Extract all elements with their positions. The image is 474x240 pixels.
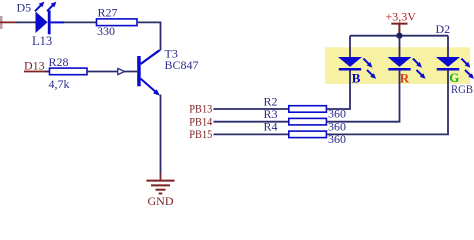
- wire anode drop to RGB LED chip 2: [399, 36, 401, 58]
- svg-text:R27: R27: [98, 5, 118, 19]
- wire anode drop to RGB LED chip 1: [349, 36, 351, 58]
- highlight box around RGB LED group: [325, 47, 470, 84]
- LED D2 chip G (green chip): [436, 57, 474, 79]
- svg-text:PB14: PB14: [189, 116, 212, 128]
- svg-text:BC847: BC847: [165, 58, 199, 72]
- svg-text:D5: D5: [17, 0, 32, 14]
- wire R4 to LED chip: [326, 133, 449, 135]
- clipped terminal at left edge: [0, 16, 3, 29]
- power +3,3V: [391, 24, 407, 34]
- resistor R3: [289, 118, 327, 125]
- LED D5: [35, 2, 64, 35]
- wire PB15 to R4: [214, 133, 289, 135]
- wire emitter to ground: [160, 95, 162, 174]
- svg-text:L13: L13: [32, 34, 52, 48]
- svg-text:D2: D2: [436, 22, 451, 36]
- wire R3 to LED chip: [326, 121, 400, 123]
- svg-text:4,7k: 4,7k: [49, 77, 70, 91]
- svg-text:PB13: PB13: [189, 104, 212, 116]
- wire PB13 to R2: [214, 108, 289, 110]
- ground: [146, 173, 174, 194]
- resistor R4: [289, 131, 327, 138]
- wire power bus: [350, 35, 448, 37]
- transistor T3: [137, 50, 160, 95]
- resistor R27: [97, 19, 138, 26]
- svg-text:+3,3V: +3,3V: [386, 10, 417, 24]
- LED D2 chip R (red chip): [388, 57, 426, 79]
- wire LED D5 to R27: [64, 21, 97, 23]
- svg-text:330: 330: [97, 24, 115, 38]
- svg-text:R28: R28: [49, 55, 69, 69]
- svg-text:GND: GND: [148, 194, 174, 205]
- svg-text:PB15: PB15: [189, 129, 212, 141]
- wire net D13 to R28: [24, 71, 50, 73]
- wire R27 to collector: [137, 22, 161, 51]
- LED D2 chip B (blue chip): [338, 57, 376, 79]
- resistor R2: [289, 106, 327, 113]
- svg-text:RGB: RGB: [451, 82, 473, 96]
- svg-text:B: B: [352, 70, 361, 85]
- svg-text:D13: D13: [24, 59, 45, 73]
- resistor R28: [50, 68, 88, 75]
- wire anode drop to RGB LED chip 3: [447, 36, 449, 58]
- svg-text:R4: R4: [264, 119, 278, 133]
- wire cathode of chip 2 down: [399, 71, 401, 122]
- wire PB14 to R3: [214, 121, 289, 123]
- wire R2 to LED chip: [326, 108, 351, 110]
- wire net to LED D5 anode: [0, 21, 36, 23]
- junction: [396, 33, 402, 39]
- wire cathode of chip 3 down: [447, 71, 449, 135]
- signal direction arrow on base wire: [118, 68, 125, 74]
- svg-text:R: R: [400, 71, 410, 86]
- wire cathode of chip 1 down: [349, 71, 351, 110]
- wire R28 to base: [87, 71, 137, 73]
